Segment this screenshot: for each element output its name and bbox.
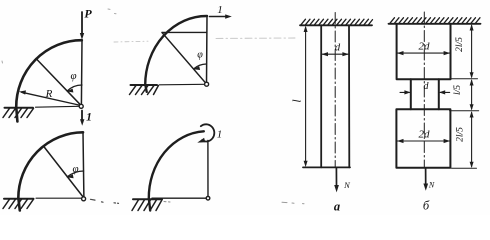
fig4 support line [133,198,162,200]
fig1 vertical radius line [80,40,83,105]
svg-text:N: N [343,180,351,190]
fig1 force P arrow shaft [81,12,83,34]
svg-text:d: d [424,81,430,92]
bar-a ceiling line [300,24,372,26]
fig3 horizontal chord line [162,31,207,33]
fig4 vertical radius line [207,141,209,199]
svg-text:φ: φ [70,70,76,82]
svg-text:R: R [45,88,53,100]
bar-b extension line at second step [450,110,479,112]
svg-text:2l/5: 2l/5 [456,127,466,142]
fig2 angle arrowhead [67,174,74,178]
fig4 moment arrowhead [197,138,205,143]
fig1 angle arrowhead [66,89,73,93]
bar-a length dimension arrowheads [304,26,308,167]
fig1 phi radius line [36,59,81,106]
bar-a length dimension line [305,28,307,166]
bar-b narrow section outline [411,79,439,109]
fig1 support hatching [3,108,34,117]
bar-b top 2d arrowheads [397,51,450,55]
svg-text:l: l [292,99,304,102]
bar-b bottom 2d dimension line [397,140,449,142]
bar-a bottom edge [303,166,350,168]
fig3 angle arc phi [194,64,207,69]
bar-a dimension d arrowheads [321,52,349,56]
fig2 vertical radius line [82,132,85,198]
bar-b ceiling hatching [390,18,480,24]
svg-text:2d: 2d [419,41,431,53]
svg-text:φ: φ [197,50,203,61]
faint specks top area [2,9,116,63]
fig2 support hatching [3,199,34,208]
fig1 unit force 1 arrow shaft (load of figure 2) [81,111,83,121]
bar-b top 2d dimension line [397,52,449,54]
svg-text:l/5: l/5 [453,85,463,95]
fig1 support line [5,107,34,109]
svg-text:1: 1 [217,4,223,16]
bar-a axis centreline [334,13,336,168]
svg-text:1: 1 [86,112,92,124]
fig3 angle arrowhead [193,66,200,70]
fig1 embedded arc end [16,108,17,122]
fig4 quarter arc [149,131,204,198]
bar-b middle d arrowheads [404,90,445,94]
bar-b lower wide section outline [396,109,450,167]
svg-text:2l/5: 2l/5 [455,37,465,52]
fig2 embedded arc end [18,199,19,211]
fig1 quarter arc [16,40,82,107]
bar-b extension line at first step [452,78,478,80]
fig3 unit force arrow shaft [210,16,227,18]
svg-text:2d: 2d [419,129,431,141]
bar-b force N arrow shaft [425,168,427,185]
fig1 force P arrowhead [80,33,84,40]
bar-b right dimension line segment 3 [471,113,473,167]
fig2 baseline support to centre [36,197,82,199]
bar-a force N arrowhead [334,185,339,192]
bar-b extension line at bottom [452,167,477,169]
fig4 support hatching [132,200,162,211]
bar-a left edge [320,25,322,167]
bar-b right dimension line segment 2 [471,81,473,110]
bar-a dimension d line [322,53,348,55]
fig4 embedded arc end [149,199,150,211]
fig4 moment curved arrow [201,124,215,141]
fig2 phi radius line [43,146,84,198]
fig1 centre node circle [79,104,83,108]
bar-b right dimension line segment 1 [471,26,473,78]
svg-text:б: б [423,199,430,213]
fig4 faint dots right of support [164,201,170,204]
bar-a ceiling hatching [301,19,373,25]
bar-b middle d dimension lines [400,91,450,93]
bar-b top wide section outline [397,24,451,80]
bar-b right dim arrows segment 1 [470,24,474,79]
svg-text:а: а [334,200,340,214]
svg-text:N: N [428,181,435,190]
bar-a right edge [348,25,350,167]
fig4 centre node circle [206,196,210,200]
fig1 unit force arrowhead [80,119,84,126]
fig4 baseline support to centre [152,197,206,199]
fig2 dashed extension right of centre [91,199,119,203]
svg-text:φ: φ [72,163,78,175]
fig1 R arrowhead on arc [19,90,26,94]
fig3 support hatching [130,85,159,94]
fig3 unit force arrowhead [225,14,232,18]
fig1 radius R line [22,92,82,105]
fig3 centre node circle [205,82,209,86]
faint specks bottom between bars [282,202,304,203]
fig3 vertical radius line [206,16,209,84]
svg-text:P: P [84,7,92,21]
fig3 quarter arc [145,16,207,85]
fig2 angle arc phi [67,171,83,177]
fig2 centre node circle [82,197,86,201]
bar-b right dim arrows segment 3 [470,111,474,168]
fig1 baseline support to centre [36,105,80,108]
faint dash-dot axis between fig3 and bar a [216,37,295,39]
fig3 baseline support to centre [160,83,205,86]
fig1 angle arc phi [67,85,82,91]
bar-b ceiling line [389,23,481,25]
fig3 radius line at angle phi [162,33,207,85]
fig2 support line [4,198,34,200]
bar-b force N arrowhead [423,184,428,191]
svg-text:1: 1 [217,129,223,141]
fig3 support line [131,84,158,86]
svg-text:d: d [335,43,341,54]
fig2 quarter arc [18,132,83,198]
bar-b axis centreline [423,12,425,167]
bar-a force N arrow shaft [335,168,337,187]
fig3 embedded arc end [145,85,146,92]
bar-b right dim arrows segment 2 [470,79,474,111]
bar-b bottom 2d arrowheads [397,139,450,143]
